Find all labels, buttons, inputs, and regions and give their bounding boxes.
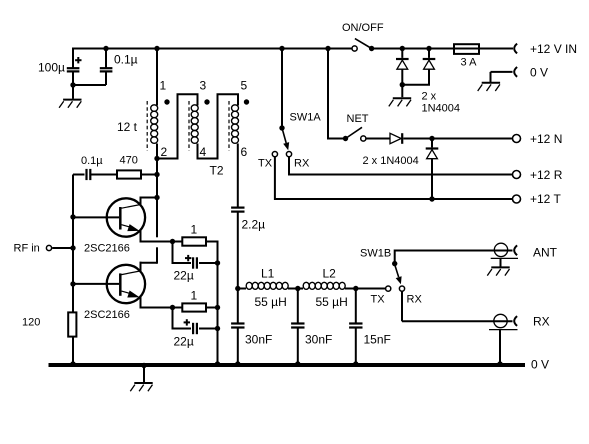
svg-text:15nF: 15nF [364,333,391,347]
svg-text:5: 5 [241,79,248,93]
svg-text:470: 470 [120,155,138,167]
svg-text:+12 R: +12 R [530,168,563,182]
svg-text:3 A: 3 A [461,57,478,69]
svg-text:L2: L2 [323,267,337,281]
svg-text:120: 120 [22,317,40,329]
svg-text:NET: NET [347,113,369,125]
svg-text:SW1A: SW1A [290,112,322,124]
svg-text:ON/OFF: ON/OFF [342,22,384,34]
svg-text:RF in: RF in [14,243,40,255]
svg-text:1: 1 [160,79,167,93]
svg-text:55 µH: 55 µH [316,295,348,309]
svg-text:2SC2166: 2SC2166 [84,309,130,321]
svg-text:TX: TX [258,158,273,170]
svg-text:22µ: 22µ [174,335,194,349]
svg-text:+12 N: +12 N [530,132,562,146]
svg-text:6: 6 [241,145,248,159]
svg-text:2: 2 [161,145,168,159]
svg-text:TX: TX [371,294,386,306]
svg-text:0.1µ: 0.1µ [81,155,103,167]
svg-text:2 x: 2 x [422,91,437,103]
svg-text:0.1µ: 0.1µ [114,53,138,67]
svg-text:+12 V IN: +12 V IN [530,42,577,56]
svg-text:12 t: 12 t [117,120,138,134]
svg-text:1: 1 [191,289,198,303]
svg-text:0 V: 0 V [531,358,549,372]
svg-text:4: 4 [200,145,207,159]
svg-text:L1: L1 [261,267,275,281]
svg-text:30nF: 30nF [245,333,272,347]
svg-text:1: 1 [191,223,198,237]
svg-text:2.2µ: 2.2µ [242,218,266,232]
svg-text:1N4004: 1N4004 [422,103,461,115]
svg-text:RX: RX [294,158,310,170]
svg-text:T2: T2 [210,164,224,178]
svg-text:+12 T: +12 T [530,192,561,206]
svg-text:30nF: 30nF [305,333,332,347]
svg-text:100µ: 100µ [38,61,65,75]
svg-text:3: 3 [200,79,207,93]
svg-text:0 V: 0 V [530,66,548,80]
svg-text:RX: RX [533,315,550,329]
svg-text:55 µH: 55 µH [255,295,287,309]
svg-text:ANT: ANT [533,246,558,260]
svg-text:2SC2166: 2SC2166 [84,243,130,255]
svg-text:2 x 1N4004: 2 x 1N4004 [363,155,419,167]
svg-text:SW1B: SW1B [360,248,391,260]
svg-text:RX: RX [407,294,423,306]
svg-text:22µ: 22µ [174,269,194,283]
